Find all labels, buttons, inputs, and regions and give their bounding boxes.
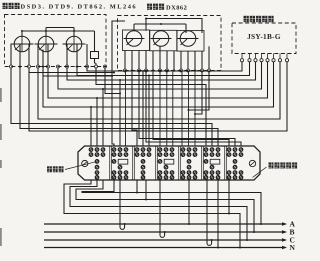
run t77-JSY2 tap col149 bbox=[77, 62, 250, 76]
M1 top lead bbox=[21, 31, 23, 36]
meter leads down to meter terminals bbox=[10, 44, 12, 65]
left meter terminal row bbox=[10, 65, 13, 68]
wire t11 -> col212 bbox=[11, 68, 212, 146]
wire mid t174 straight to box bbox=[172, 72, 174, 146]
svg-text:N: N bbox=[290, 243, 296, 252]
junction box terminal group 5 bbox=[181, 148, 185, 152]
M3 centre lead bbox=[73, 36, 75, 52]
junction box terminal group 7 bbox=[227, 148, 231, 152]
run t38-JSY7 bbox=[38, 62, 280, 119]
chord W1 bbox=[124, 38, 145, 40]
W1 arrow slash bbox=[127, 39, 134, 45]
run t87-JSY1 tap col143 bbox=[87, 62, 242, 71]
junction box (联合接线盒) outline bbox=[78, 146, 260, 180]
run t48-JSY5 tap col97 bbox=[48, 62, 268, 98]
wire mid t146 -> col241 bbox=[146, 72, 241, 146]
meter element W2 (reactive meter) bbox=[153, 31, 169, 47]
wire mid t209 T into v188 bbox=[189, 72, 210, 110]
run t43-JSY6 tap col91 bbox=[43, 62, 274, 107]
wire mid t125 straight to box bbox=[125, 72, 127, 146]
JSY-1B-G dashed enclosure bbox=[232, 23, 296, 54]
W3 arrow slash bbox=[181, 39, 188, 45]
M3 arrow slash bbox=[67, 45, 73, 51]
wire t96 -> col206 bbox=[96, 68, 206, 146]
W1 coil frame bbox=[123, 30, 150, 51]
run t29-JSY8 bbox=[29, 62, 287, 131]
mounting screw right bbox=[249, 160, 255, 166]
feed C bbox=[246, 239, 248, 241]
meter element M1 (active meter) bbox=[14, 36, 30, 52]
M1 arrow slash bbox=[15, 45, 21, 51]
M3 top lead bbox=[73, 31, 75, 36]
potential link bus (left box) bbox=[22, 30, 94, 32]
label: active meters 有功表DSD3、DTD9、DT862、ML246 bbox=[3, 3, 8, 9]
hook to bus B bbox=[160, 180, 165, 237]
W3 coil frame bbox=[177, 31, 204, 51]
chord W2 bbox=[151, 38, 172, 40]
wire mid t160 straight to box bbox=[159, 72, 161, 146]
run t67-JSY3 tap col120 bbox=[67, 62, 256, 80]
junction box terminal group 6 bbox=[204, 148, 208, 152]
aux resistor box bbox=[91, 52, 99, 59]
meter element W3 (reactive meter) bbox=[180, 31, 196, 47]
junction box terminal group 3 bbox=[135, 148, 139, 152]
M2 top lead bbox=[45, 31, 47, 36]
reactive meter leads to terminals bbox=[124, 51, 126, 70]
chord W3 bbox=[178, 38, 199, 40]
reactive-meter dashed enclosure bbox=[118, 16, 222, 71]
wire mid t139 -> col235 bbox=[139, 72, 235, 146]
wire mid t188 straight to box bbox=[188, 72, 190, 146]
svg-text:JSY-1B-G: JSY-1B-G bbox=[247, 32, 281, 41]
feed to A bbox=[188, 223, 190, 225]
wire t20 -> col218 bbox=[20, 68, 218, 146]
extra link t29 - v114 bbox=[29, 69, 114, 72]
label: reactive meter 无功表DX862 bbox=[147, 4, 152, 10]
section dividers bbox=[109, 146, 111, 180]
feed A bbox=[260, 223, 262, 225]
feed N bbox=[239, 247, 241, 249]
M2 centre lead bbox=[45, 36, 47, 52]
direct drops joining lower horizontals bbox=[136, 180, 138, 193]
reactive meter internal routing bbox=[146, 19, 202, 34]
wire mid t132 -> col137 bbox=[132, 72, 137, 146]
label 小端柱 with leader bbox=[47, 166, 52, 172]
meter element M2 (active meter) bbox=[38, 36, 54, 52]
feed B bbox=[253, 231, 255, 233]
wire t105 T into v120 bbox=[105, 68, 120, 94]
wire mid t202 T into v195 bbox=[195, 72, 202, 114]
W2 coil frame bbox=[150, 30, 177, 51]
wire mid t167 straight to box bbox=[166, 72, 168, 146]
hook to bus A bbox=[120, 180, 125, 229]
label: voltage-loss timer 失压计时仪 bbox=[244, 16, 249, 22]
svg-text:DX862: DX862 bbox=[166, 5, 187, 12]
middle terminal row bbox=[124, 69, 127, 72]
junction box terminal group 4 bbox=[158, 148, 162, 152]
current-coil chord M3 bbox=[63, 43, 86, 45]
label 联合接线盒 with leader bbox=[269, 162, 274, 168]
current-coil chord M1 bbox=[11, 43, 34, 45]
junction box terminal group 2 bbox=[112, 148, 116, 152]
extra link t43 - v112 bbox=[43, 69, 112, 76]
wire mid t195 straight to box bbox=[194, 72, 196, 146]
svg-text:DSD3. DTD9. DT862. ML246: DSD3. DTD9. DT862. ML246 bbox=[21, 4, 138, 11]
M2 arrow slash bbox=[39, 45, 45, 51]
current-coil chord M2 bbox=[35, 43, 58, 45]
wire to resistor bbox=[94, 31, 96, 52]
meter element M3 (active meter) bbox=[66, 36, 82, 52]
neutral bus N bbox=[44, 247, 286, 249]
JSY terminal row bbox=[241, 54, 243, 59]
phase bus B bbox=[44, 231, 286, 233]
run t58-JSY4 tap col103 bbox=[58, 62, 262, 89]
junction box terminal group 1 bbox=[89, 148, 93, 152]
scan artifact smudges (decorative) bbox=[0, 88, 2, 102]
phase bus C bbox=[44, 239, 286, 241]
mounting screw left bbox=[82, 160, 88, 166]
W2 arrow slash bbox=[154, 39, 161, 45]
meter element W1 (reactive meter) bbox=[126, 31, 142, 47]
resistor lower lead bbox=[94, 59, 96, 64]
staircase wires from box bottom to buses bbox=[64, 180, 240, 248]
M1 centre lead bbox=[21, 36, 23, 52]
phase bus A bbox=[44, 223, 286, 225]
hook to bus C bbox=[207, 180, 212, 245]
wire leaving box to the left bbox=[112, 21, 125, 146]
wire mid t153 -> col229 bbox=[153, 72, 229, 146]
wire mid t181 straight to box bbox=[181, 72, 183, 146]
feed to N bbox=[217, 247, 219, 249]
active-meter panel dashed enclosure bbox=[5, 15, 107, 67]
